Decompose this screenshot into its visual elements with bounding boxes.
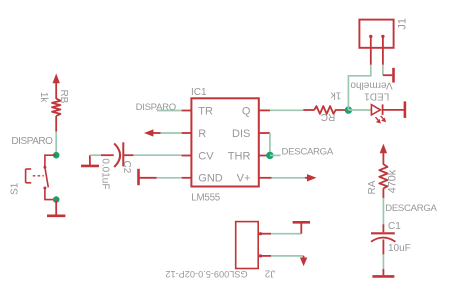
svg-text:RA: RA (367, 180, 378, 194)
svg-text:TR: TR (198, 105, 213, 117)
wire LED to ground (383, 109, 404, 111)
svg-text:V+: V+ (237, 173, 251, 185)
wire DESCARGA net (vertical) (382, 198, 384, 225)
wire J1-1 to LED node (348, 65, 370, 110)
wire C1 lead (382, 240, 384, 255)
supply arrow (top of RA) (380, 144, 387, 165)
svg-text:DISPARO: DISPARO (136, 102, 176, 113)
supply arrow V+ (top of RB) (53, 74, 60, 100)
svg-text:1k: 1k (330, 90, 342, 101)
svg-text:LED1: LED1 (364, 90, 389, 101)
svg-text:Q: Q (242, 105, 251, 117)
svg-text:RB: RB (58, 89, 69, 103)
svg-text:DISPARO: DISPARO (11, 136, 53, 147)
supply arrow (V+ pin, right) (305, 174, 317, 181)
svg-text:R: R (198, 128, 206, 140)
pin THR stub (259, 155, 270, 157)
svg-text:Vermelho: Vermelho (350, 79, 393, 90)
pin GND stub (182, 177, 192, 179)
capacitor C2 (114, 143, 120, 167)
node junction (bottom of S1) (53, 196, 60, 203)
resistor RB (52, 99, 60, 117)
ground (left of C2) (81, 155, 99, 166)
wire J1-2 down (382, 65, 384, 75)
node junction (Q / LED / J1) (345, 106, 352, 113)
wire DESCARGA stub (270, 154, 281, 156)
svg-text:J2: J2 (264, 268, 275, 279)
pin J2-2 (258, 255, 271, 257)
svg-text:GSL009-5.0-02P-12: GSL009-5.0-02P-12 (165, 269, 247, 279)
LED arrows (376, 116, 387, 124)
svg-text:470k: 470k (387, 169, 399, 193)
connector J1 box (359, 20, 393, 48)
svg-text:0.01uF: 0.01uF (100, 158, 111, 189)
svg-text:IC1: IC1 (191, 87, 207, 98)
ground (GND pin) (139, 169, 157, 185)
resistor RC (303, 109, 314, 111)
svg-text:S1: S1 (10, 182, 21, 195)
node junction (top of S1) (53, 152, 60, 159)
svg-text:RC: RC (321, 111, 335, 122)
pin R stub (182, 132, 192, 134)
wire R net (161, 132, 182, 134)
pin J1-2 (382, 36, 384, 65)
pin Q stub (259, 109, 270, 111)
pin V+ stub (259, 177, 272, 179)
svg-text:DESCARGA: DESCARGA (385, 203, 437, 214)
wire gnd to C2 (90, 154, 101, 156)
pin TR stub (182, 110, 192, 112)
wire J2-1 net (271, 233, 301, 235)
resistor RA (379, 164, 387, 188)
wire J2-2 net (271, 255, 304, 257)
svg-text:CV: CV (198, 150, 214, 162)
ground (J1-2) (383, 68, 394, 83)
svg-text:DESCARGA: DESCARGA (282, 146, 334, 157)
ground (C1) (372, 269, 394, 276)
ground (LED) (404, 101, 407, 118)
node junction (DIS/THR) (266, 152, 273, 159)
wire node to LED (348, 109, 370, 111)
svg-text:LM555: LM555 (191, 193, 221, 204)
pin DIS stub (259, 132, 270, 134)
svg-text:C2: C2 (121, 161, 132, 174)
wire RA lead (382, 188, 384, 198)
wire TR net (157, 110, 182, 112)
connector J2 box (236, 222, 259, 269)
svg-text:GND: GND (198, 173, 223, 185)
wire CV net (124, 154, 133, 156)
op IC1 LM555 box (191, 98, 258, 186)
wire to ground (C1) (382, 254, 384, 269)
svg-text:C1: C1 (388, 221, 401, 232)
reset arrow (R pin) (144, 129, 161, 136)
svg-text:THR: THR (228, 150, 251, 162)
supply arrow (J2-2, down) (300, 256, 307, 266)
wire Q net (270, 109, 303, 111)
wire GND net (157, 177, 182, 179)
wire DISPARO net (vertical) (55, 131, 57, 155)
svg-text:DIS: DIS (232, 128, 250, 140)
wire to ground (55, 200, 57, 215)
capacitor C1 (382, 224, 384, 232)
svg-text:J1: J1 (397, 18, 409, 30)
wire RB lead (55, 116, 57, 132)
ground (below S1) (47, 215, 65, 218)
wire V+ net (272, 177, 305, 179)
ground (J2-1, bar up) (293, 222, 310, 233)
pin CV stub (182, 155, 192, 157)
svg-text:1k: 1k (38, 92, 49, 104)
switch S1 (26, 155, 57, 199)
wire DIS net (down to THR) (269, 133, 271, 155)
pin J1-1 (370, 36, 372, 65)
LED LED1 (371, 104, 382, 115)
pin J2-1 (258, 233, 271, 235)
svg-text:10uF: 10uF (388, 243, 411, 254)
